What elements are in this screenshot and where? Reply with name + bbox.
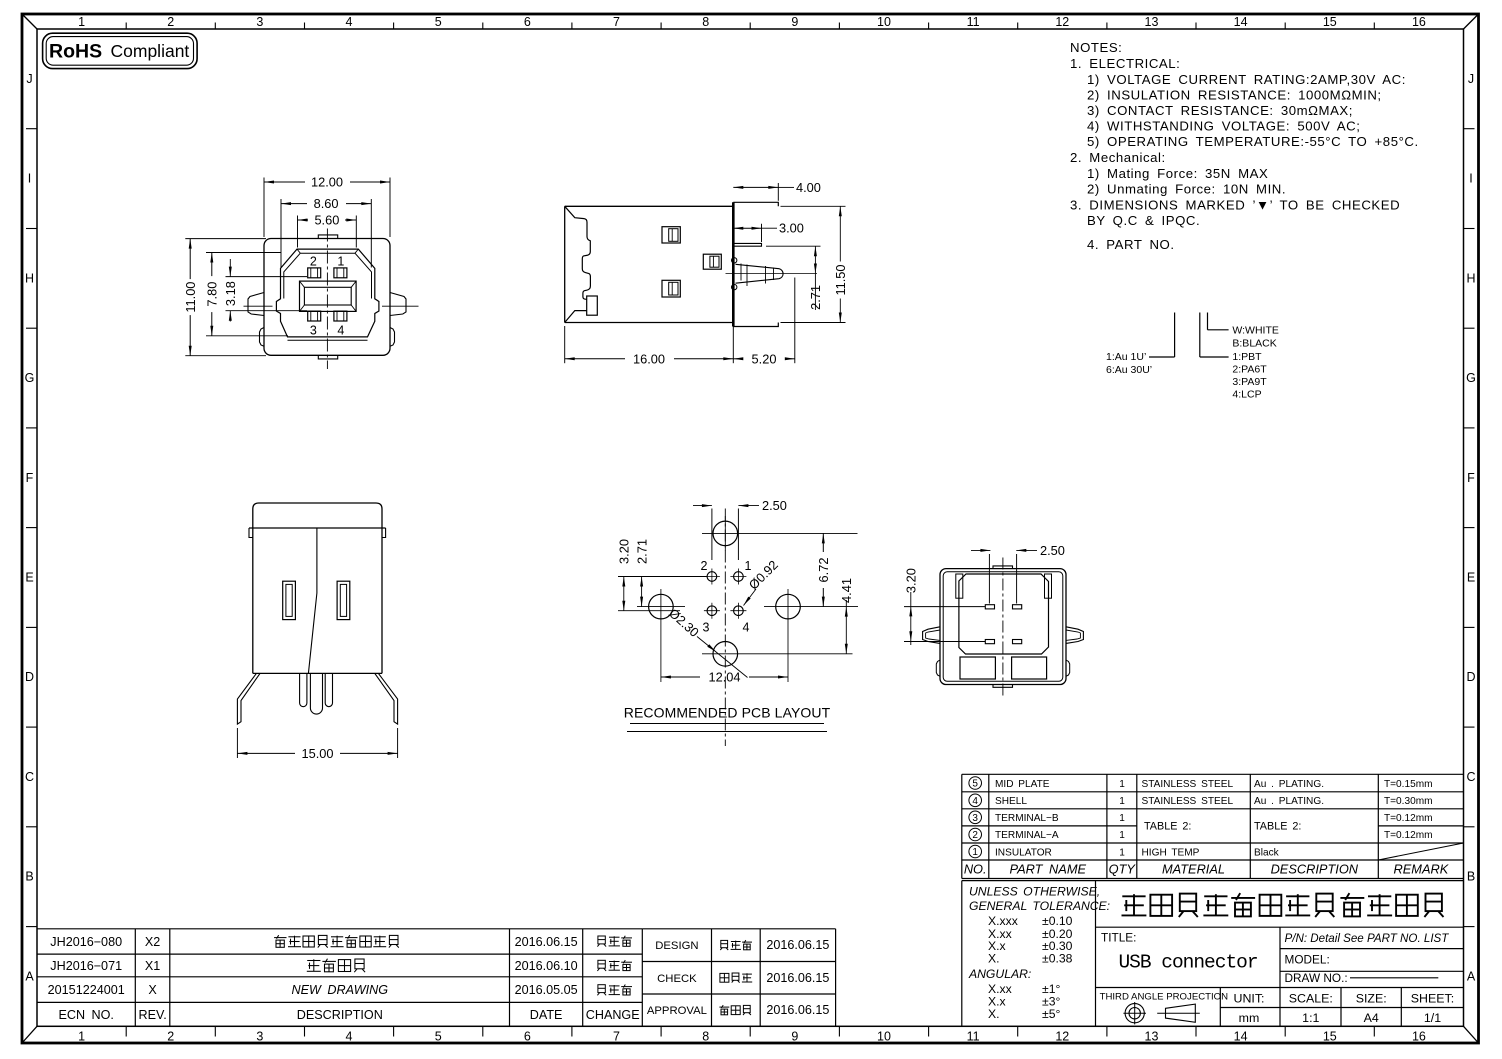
svg-text:UNLESS OTHERWISE,: UNLESS OTHERWISE, <box>969 885 1100 899</box>
svg-text:12.00: 12.00 <box>311 175 343 190</box>
svg-text:14: 14 <box>1234 15 1248 29</box>
svg-text:INSULATOR: INSULATOR <box>995 847 1052 858</box>
front view central opening inner <box>304 287 351 305</box>
svg-text:MID PLATE: MID PLATE <box>995 779 1050 790</box>
svg-text:B:BLACK: B:BLACK <box>1232 338 1276 350</box>
svg-text:16.00: 16.00 <box>633 351 665 366</box>
front view left latch bump <box>248 293 264 316</box>
svg-text:1: 1 <box>1119 847 1125 858</box>
svg-text:I: I <box>1469 172 1472 186</box>
svg-text:14: 14 <box>1234 1030 1248 1044</box>
svg-text:JH2016−071: JH2016−071 <box>50 959 122 973</box>
front view top tab <box>318 235 337 239</box>
approval table grid <box>642 928 835 930</box>
revision table grid <box>37 928 642 930</box>
svg-text:GENERAL TOLERANCE:: GENERAL TOLERANCE: <box>969 899 1110 913</box>
front view right latch bump <box>390 293 406 316</box>
front view pin 1 contact <box>334 268 347 278</box>
grid column tick marks <box>125 23 127 30</box>
front view shell inner thickness lines <box>300 252 355 254</box>
notes text block <box>1070 40 1419 252</box>
leg view inner right leg <box>325 673 332 706</box>
svg-text:1:1: 1:1 <box>1302 1011 1319 1025</box>
rear view top tab <box>993 566 1013 569</box>
svg-text:2.71: 2.71 <box>808 285 823 310</box>
svg-text:±5°: ±5° <box>1042 1007 1060 1021</box>
svg-text:A: A <box>25 969 34 983</box>
rear view body outer <box>940 569 1066 685</box>
approval table text <box>647 938 830 1017</box>
svg-text:PART NAME: PART NAME <box>1010 862 1087 877</box>
svg-text:E: E <box>25 571 33 585</box>
svg-text:H: H <box>25 271 34 285</box>
svg-text:4: 4 <box>346 15 353 29</box>
front view body outline <box>264 239 390 356</box>
svg-text:G: G <box>25 371 35 385</box>
svg-text:1: 1 <box>745 559 752 573</box>
rear view centerline <box>1002 558 1004 696</box>
leg view cap flange <box>249 527 386 529</box>
dimension 11.00 <box>185 238 266 240</box>
svg-text:HIGH TEMP: HIGH TEMP <box>1142 847 1200 858</box>
pcb dimension 12.04 <box>661 676 700 678</box>
svg-text:15: 15 <box>1323 1030 1337 1044</box>
svg-text:B: B <box>1467 870 1475 884</box>
svg-text:2: 2 <box>701 559 708 573</box>
dimension 4.00 <box>777 183 779 201</box>
svg-text:F: F <box>26 471 34 485</box>
svg-text:NEW DRAWING: NEW DRAWING <box>292 983 389 997</box>
svg-text:3: 3 <box>256 1030 263 1044</box>
leg view left outer leg <box>237 673 260 724</box>
dimension 7.80 <box>206 252 281 254</box>
side view clip square middle <box>703 254 721 269</box>
svg-text:SHELL: SHELL <box>995 796 1027 807</box>
svg-text:X: X <box>148 983 157 997</box>
pcb dimension 4.41 <box>845 600 847 654</box>
svg-text:2.50: 2.50 <box>1040 543 1065 558</box>
side view top edge <box>565 205 734 207</box>
svg-text:16: 16 <box>1412 1030 1426 1044</box>
pcb dimension 2.50 <box>711 509 713 561</box>
svg-text:1: 1 <box>1119 813 1125 824</box>
revision change names <box>598 936 605 944</box>
svg-text:X1: X1 <box>145 959 160 973</box>
side view spring contact <box>736 264 784 283</box>
svg-text:1: 1 <box>1119 830 1125 841</box>
dimension 16.00 <box>564 326 566 363</box>
svg-text:W:WHITE: W:WHITE <box>1232 325 1278 337</box>
svg-text:12: 12 <box>1055 1030 1069 1044</box>
dimension 15.00 <box>236 728 238 758</box>
svg-text:1) Mating Force: 35N MAX: 1) Mating Force: 35N MAX <box>1087 166 1268 181</box>
svg-text:DESCRIPTION: DESCRIPTION <box>297 1008 383 1022</box>
svg-text:TITLE:: TITLE: <box>1101 931 1136 945</box>
svg-text:20151224001: 20151224001 <box>48 983 125 997</box>
svg-text:5: 5 <box>435 15 442 29</box>
front view opening corner lines <box>300 281 357 311</box>
svg-text:2: 2 <box>167 15 174 29</box>
svg-text:F: F <box>1467 471 1475 485</box>
svg-text:mm: mm <box>1239 1011 1260 1025</box>
svg-text:4: 4 <box>337 324 344 338</box>
svg-text:X.: X. <box>988 1007 1000 1021</box>
svg-text:T=0.12mm: T=0.12mm <box>1384 830 1433 841</box>
front view bottom tab <box>318 355 337 359</box>
side view mid flange <box>733 243 761 246</box>
svg-text:1: 1 <box>78 15 85 29</box>
svg-text:SIZE:: SIZE: <box>1356 992 1387 1006</box>
svg-text:P/N: Detail See PART NO.: P/N: Detail See PART NO. LIST <box>1285 932 1450 945</box>
svg-text:6:Au 30U’: 6:Au 30U’ <box>1106 364 1152 376</box>
svg-text:4: 4 <box>972 796 978 807</box>
rear view bottom side bumps <box>936 660 940 676</box>
svg-text:2016.06.10: 2016.06.10 <box>515 959 578 973</box>
svg-text:7: 7 <box>613 1030 620 1044</box>
svg-text:15: 15 <box>1323 15 1337 29</box>
svg-text:5: 5 <box>972 779 978 790</box>
svg-text:STAINLESS STEEL: STAINLESS STEEL <box>1142 796 1234 807</box>
svg-text:1. ELECTRICAL:: 1. ELECTRICAL: <box>1070 56 1180 71</box>
svg-text:X.xxx: X.xxx <box>988 914 1018 928</box>
svg-text:RECOMMENDED PCB LAYOUT: RECOMMENDED PCB LAYOUT <box>624 705 831 721</box>
svg-text:CHANGE: CHANGE <box>586 1008 640 1022</box>
title block outline <box>962 880 1464 882</box>
svg-text:5.60: 5.60 <box>314 213 339 228</box>
svg-text:MATERIAL: MATERIAL <box>1162 862 1225 877</box>
dimension 3.00 <box>761 224 763 242</box>
svg-text:12: 12 <box>1055 15 1069 29</box>
dimension 5.60 <box>297 216 299 248</box>
svg-text:15.00: 15.00 <box>301 746 333 761</box>
svg-text:2016.05.05: 2016.05.05 <box>515 983 578 997</box>
side view top flange <box>733 202 778 206</box>
svg-text:NO.: NO. <box>964 862 987 877</box>
rear view shield outline <box>959 574 1049 654</box>
grid row tick marks <box>26 128 37 130</box>
svg-text:H: H <box>1466 271 1475 285</box>
pcb hole right <box>776 594 801 619</box>
revision table text <box>48 935 640 1022</box>
parts table circled numbers <box>969 777 982 790</box>
svg-text:RoHS: RoHS <box>49 41 102 63</box>
dimension 11.50 <box>781 205 846 207</box>
rear dimension 2.50 <box>988 554 990 604</box>
svg-text:2.71: 2.71 <box>634 539 649 564</box>
svg-text:13: 13 <box>1145 15 1159 29</box>
svg-text:G: G <box>1466 371 1476 385</box>
svg-text:1: 1 <box>337 255 344 269</box>
svg-text:2:PA6T: 2:PA6T <box>1232 364 1267 376</box>
svg-text:7: 7 <box>613 15 620 29</box>
leg view right slot <box>337 581 350 619</box>
rear view contact pads <box>985 605 994 609</box>
svg-text:5.20: 5.20 <box>752 351 777 366</box>
svg-text:Compliant: Compliant <box>111 41 190 61</box>
svg-text:16: 16 <box>1412 15 1426 29</box>
projection cone symbol <box>1166 1004 1196 1022</box>
svg-text:C: C <box>25 770 34 784</box>
svg-text:A4: A4 <box>1364 1011 1379 1025</box>
pcb hole top <box>713 521 738 546</box>
svg-text:2) INSULATION RESISTANCE: 1: 2) INSULATION RESISTANCE: 1000MΩMIN; <box>1087 88 1382 103</box>
svg-text:1) VOLTAGE CURRENT RATING:2: 1) VOLTAGE CURRENT RATING:2AMP,30V AC: <box>1087 72 1406 87</box>
svg-text:1: 1 <box>972 847 978 858</box>
svg-text:2. Mechanical:: 2. Mechanical: <box>1070 150 1166 165</box>
svg-text:4) WITHSTANDING VOLTAGE: 50: 4) WITHSTANDING VOLTAGE: 500V AC; <box>1087 119 1360 134</box>
svg-text:2: 2 <box>167 1030 174 1044</box>
svg-text:ANGULAR:: ANGULAR: <box>968 967 1031 981</box>
svg-text:13: 13 <box>1145 1030 1159 1044</box>
svg-text:5) OPERATING TEMPERATURE:-55: 5) OPERATING TEMPERATURE:-55°C TO +85°C. <box>1087 134 1419 149</box>
svg-text:9: 9 <box>791 1030 798 1044</box>
svg-text:STAINLESS STEEL: STAINLESS STEEL <box>1142 779 1234 790</box>
svg-text:TERMINAL−B: TERMINAL−B <box>995 813 1059 824</box>
svg-text:2) Unmating Force: 10N M: 2) Unmating Force: 10N MIN. <box>1087 182 1286 197</box>
svg-text:3.00: 3.00 <box>779 221 804 236</box>
rear view left wing <box>923 627 940 644</box>
dimension 5.20 <box>794 278 796 364</box>
svg-text:T=0.15mm: T=0.15mm <box>1384 779 1433 790</box>
svg-text:SHEET:: SHEET: <box>1411 992 1454 1006</box>
svg-text:Au . PLATING.: Au . PLATING. <box>1254 779 1324 790</box>
parts list table grid <box>962 773 1464 775</box>
svg-text:2.50: 2.50 <box>762 498 787 513</box>
svg-text:3: 3 <box>972 813 978 824</box>
rear view right wing <box>1066 627 1083 644</box>
svg-text:4. PART NO.: 4. PART NO. <box>1087 237 1175 252</box>
side view clip square lower <box>662 280 680 297</box>
side view spring bend lines <box>740 264 742 281</box>
parts table header <box>964 862 1449 877</box>
svg-text:3) CONTACT RESISTANCE: 30mΩ: 3) CONTACT RESISTANCE: 30mΩMAX; <box>1087 103 1353 118</box>
svg-text:2016.06.15: 2016.06.15 <box>766 971 829 985</box>
front view central opening outer <box>300 281 357 311</box>
svg-text:1/1: 1/1 <box>1424 1011 1441 1025</box>
revision chinese descriptions <box>274 937 286 939</box>
svg-text:B: B <box>25 870 33 884</box>
svg-text:3: 3 <box>703 621 710 635</box>
svg-text:D: D <box>25 670 34 684</box>
svg-text:MODEL:: MODEL: <box>1285 953 1330 967</box>
svg-text:12.04: 12.04 <box>708 670 740 685</box>
leg view top cap <box>253 503 382 528</box>
rear dimension 3.20 <box>904 606 985 608</box>
svg-text:USB connector: USB connector <box>1118 952 1257 974</box>
svg-text:11.50: 11.50 <box>833 264 848 295</box>
svg-text:ECN NO.: ECN NO. <box>58 1008 113 1022</box>
svg-text:5: 5 <box>435 1030 442 1044</box>
svg-text:TABLE 2:: TABLE 2: <box>1254 821 1301 833</box>
side view left edge <box>564 206 566 322</box>
side view left jagged profile <box>565 206 591 299</box>
svg-text:1: 1 <box>1119 779 1125 790</box>
svg-text:QTY: QTY <box>1109 862 1137 877</box>
pcb dimension 6.72 <box>822 533 824 552</box>
pcb pin hole 4 <box>734 606 744 616</box>
pcb hole left <box>649 594 674 619</box>
svg-text:THIRD ANGLE PROJECTION: THIRD ANGLE PROJECTION <box>1100 992 1229 1003</box>
svg-text:C: C <box>1466 770 1475 784</box>
svg-text:T=0.12mm: T=0.12mm <box>1384 813 1433 824</box>
pcb dimension 3.20 <box>618 576 707 578</box>
svg-text:APPROVAL: APPROVAL <box>647 1005 707 1017</box>
svg-text:2016.06.15: 2016.06.15 <box>515 935 578 949</box>
svg-text:3: 3 <box>256 15 263 29</box>
pcb dimension 2.71 <box>641 577 643 607</box>
svg-text:REV.: REV. <box>138 1008 166 1022</box>
rear view bottom windows <box>960 657 995 679</box>
front view horizontal centerline <box>244 305 273 307</box>
parts table remark diagonal <box>1378 843 1463 860</box>
svg-text:8: 8 <box>702 15 709 29</box>
svg-text:3:PA9T: 3:PA9T <box>1232 376 1267 388</box>
svg-text:JH2016−080: JH2016−080 <box>50 935 122 949</box>
svg-text:2016.06.15: 2016.06.15 <box>766 1003 829 1017</box>
svg-text:1:PBT: 1:PBT <box>1232 351 1262 363</box>
svg-text:±0.10: ±0.10 <box>1042 914 1073 928</box>
svg-text:3. DIMENSIONS MARKED ’▼’ T: 3. DIMENSIONS MARKED ’▼’ TO BE CHECKED <box>1070 198 1400 213</box>
tolerance block text <box>968 885 1110 1022</box>
svg-text:A: A <box>1467 969 1476 983</box>
dimension 2.71 <box>766 245 821 247</box>
svg-text:11: 11 <box>967 1030 980 1044</box>
svg-text:2016.06.15: 2016.06.15 <box>766 938 829 952</box>
rear view body inner <box>943 572 1063 682</box>
svg-text:4:LCP: 4:LCP <box>1232 389 1261 401</box>
part number legend tree <box>1174 313 1176 358</box>
front view bottom-right bump <box>390 328 395 347</box>
svg-text:8.60: 8.60 <box>314 196 339 211</box>
leg view left slot <box>283 581 296 619</box>
front view pin 3 contact <box>308 311 321 321</box>
svg-text:I: I <box>28 172 31 186</box>
svg-text:SCALE:: SCALE: <box>1289 992 1333 1006</box>
svg-text:9: 9 <box>791 15 798 29</box>
svg-text:1: 1 <box>78 1030 85 1044</box>
svg-text:DESIGN: DESIGN <box>655 940 698 952</box>
svg-text:6: 6 <box>524 15 531 29</box>
svg-text:E: E <box>1467 571 1475 585</box>
rear view bottom tab <box>993 685 1013 688</box>
leg view body sides <box>252 528 254 673</box>
svg-text:BY Q.C & IPQC.: BY Q.C & IPQC. <box>1087 213 1200 228</box>
front view bottom-left bump <box>260 328 265 347</box>
svg-text:TERMINAL−A: TERMINAL−A <box>995 830 1059 841</box>
front view vertical centerline <box>326 229 328 370</box>
parts table body text <box>995 779 1433 859</box>
side view clip square upper <box>662 227 680 243</box>
svg-text:±0.38: ±0.38 <box>1042 952 1073 966</box>
svg-text:3: 3 <box>310 324 317 338</box>
svg-text:7.80: 7.80 <box>205 282 220 307</box>
svg-text:DRAW NO.:: DRAW NO.: <box>1285 971 1348 985</box>
svg-text:D: D <box>1466 670 1475 684</box>
svg-text:X.: X. <box>988 952 1000 966</box>
svg-text:11.00: 11.00 <box>183 282 198 313</box>
front view shell octagon outline <box>276 249 379 337</box>
svg-text:TABLE 2:: TABLE 2: <box>1144 821 1191 833</box>
svg-text:3.20: 3.20 <box>904 568 919 593</box>
side view spring centerline <box>726 273 818 275</box>
svg-text:4: 4 <box>743 621 750 635</box>
unit scale size sheet <box>1234 992 1455 1026</box>
svg-text:11: 11 <box>967 15 980 29</box>
svg-text:T=0.30mm: T=0.30mm <box>1384 796 1433 807</box>
leg view center parting line <box>308 528 317 673</box>
pcb pin hole 1 <box>734 572 744 582</box>
svg-text:8: 8 <box>702 1030 709 1044</box>
approval names (hanzi) <box>721 940 728 947</box>
pcb hole bottom <box>713 642 738 667</box>
svg-text:1: 1 <box>1119 796 1125 807</box>
dimension 12.00 <box>263 178 265 238</box>
pcb pin hole 3 <box>707 606 717 616</box>
svg-text:DATE: DATE <box>530 1008 563 1022</box>
company name (hanzi) <box>1122 895 1145 897</box>
svg-text:6: 6 <box>524 1030 531 1044</box>
side view bottom flange <box>733 323 778 327</box>
svg-text:6.72: 6.72 <box>816 558 831 583</box>
svg-text:Au . PLATING.: Au . PLATING. <box>1254 796 1324 807</box>
svg-text:10: 10 <box>877 15 891 29</box>
svg-text:4.41: 4.41 <box>839 578 854 603</box>
svg-text:1:Au 1U’: 1:Au 1U’ <box>1106 351 1146 363</box>
svg-text:3.18: 3.18 <box>223 281 238 306</box>
svg-text:4.00: 4.00 <box>796 180 821 195</box>
leg view body bottom <box>253 672 382 674</box>
svg-text:2: 2 <box>972 830 978 841</box>
front view pin 4 contact <box>334 311 347 321</box>
svg-text:4: 4 <box>346 1030 353 1044</box>
rear view shield slots <box>956 574 963 598</box>
svg-text:J: J <box>26 72 32 86</box>
corner diagonals <box>22 14 37 29</box>
svg-text:X2: X2 <box>145 935 160 949</box>
svg-text:UNIT:: UNIT: <box>1234 992 1265 1006</box>
dimension 8.60 <box>280 199 282 268</box>
svg-text:NOTES:: NOTES: <box>1070 40 1122 55</box>
svg-text:J: J <box>1468 72 1474 86</box>
svg-text:10: 10 <box>877 1030 891 1044</box>
RoHS Compliant badge <box>43 33 198 68</box>
svg-text:Black: Black <box>1254 847 1280 858</box>
svg-text:3.20: 3.20 <box>617 539 632 564</box>
pcb axis centerline <box>724 509 726 747</box>
leg view inner left leg <box>300 673 307 706</box>
side view bottom edge <box>565 322 734 324</box>
svg-text:DESCRIPTION: DESCRIPTION <box>1271 862 1359 877</box>
leg view center U loop <box>310 673 322 714</box>
svg-text:REMARK: REMARK <box>1394 862 1449 877</box>
dimension 3.18 <box>226 276 308 278</box>
pcb pin hole 2 <box>707 572 717 582</box>
front view pin 2 contact <box>308 268 321 278</box>
svg-text:2: 2 <box>310 255 317 269</box>
leg view right outer leg <box>375 673 398 724</box>
svg-text:CHECK: CHECK <box>657 973 697 985</box>
side view mounting face thick line <box>732 202 735 326</box>
